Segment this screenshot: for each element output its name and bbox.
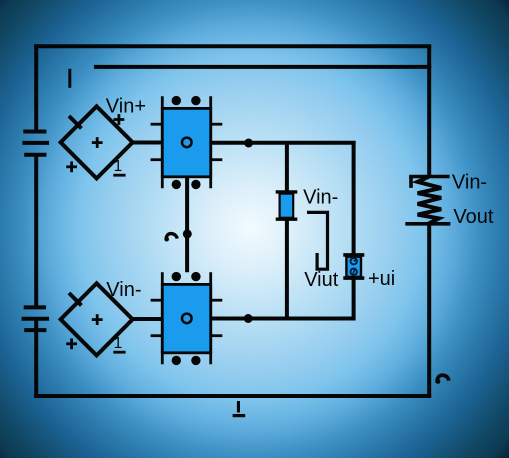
wire inner top line bbox=[94, 65, 431, 69]
wire outer bottom bbox=[34, 394, 431, 398]
wire U2 right to corner bbox=[212, 317, 356, 321]
label plus lower-left of V1 bbox=[66, 161, 77, 172]
svg-text:Vin-: Vin- bbox=[303, 187, 338, 209]
source V1 diamond Vin+ bbox=[61, 106, 133, 178]
node I marker top-left bbox=[68, 69, 71, 88]
meter M1 blue component bbox=[343, 255, 364, 278]
fuse F1 blue component bbox=[276, 192, 298, 219]
label 1 underlined at V2 bbox=[113, 335, 125, 352]
svg-text:Vin+: Vin+ bbox=[106, 96, 146, 118]
wire vertical branch through fuse F1 bbox=[285, 141, 289, 319]
svg-text:Vin-: Vin- bbox=[452, 172, 487, 194]
svg-text:1: 1 bbox=[114, 335, 123, 352]
capacitor C1 bbox=[22, 132, 49, 155]
wire V2 to U2 bbox=[133, 317, 164, 321]
wire right vertical through meter bbox=[352, 141, 356, 319]
svg-text:1: 1 bbox=[114, 158, 123, 175]
resistor R1 bbox=[405, 177, 450, 224]
svg-text:Vout: Vout bbox=[453, 206, 493, 228]
svg-text:+ui: +ui bbox=[368, 268, 395, 290]
node junction dot mid wire bbox=[183, 229, 192, 238]
transformer U2 lower blue box bbox=[151, 272, 223, 365]
label plus lower-left of V2 bbox=[66, 338, 77, 349]
label plus near Vin+ bbox=[114, 114, 125, 125]
wire outer top bbox=[34, 44, 431, 48]
wire between U1 and U2 bbox=[185, 178, 189, 273]
label 1 underlined at V1 bbox=[113, 158, 125, 175]
node junction dot right of U1 bbox=[244, 139, 253, 148]
wire V1 to U1 bbox=[133, 141, 164, 145]
wire outer left rail (interrupted by capacitors) bbox=[34, 44, 38, 398]
wire outer right rail bbox=[427, 46, 431, 396]
node junction dot right of U2 bbox=[244, 314, 253, 323]
capacitor C2 bbox=[22, 307, 49, 330]
bracket annotation bbox=[307, 212, 328, 269]
label plus inside V1 bbox=[92, 137, 103, 148]
svg-text:Viut: Viut bbox=[304, 269, 339, 291]
source V2 diamond Vin- bbox=[61, 283, 133, 355]
svg-text:Vin-: Vin- bbox=[106, 279, 141, 301]
wire U1 right to corner bbox=[212, 141, 356, 145]
transformer U1 upper blue box bbox=[151, 96, 223, 189]
current hook annotation mid bbox=[164, 234, 177, 242]
label 1 underlined bottom bbox=[233, 401, 246, 416]
label plus inside V2 bbox=[92, 314, 103, 325]
current hook annotation bottom-right bbox=[436, 375, 449, 384]
